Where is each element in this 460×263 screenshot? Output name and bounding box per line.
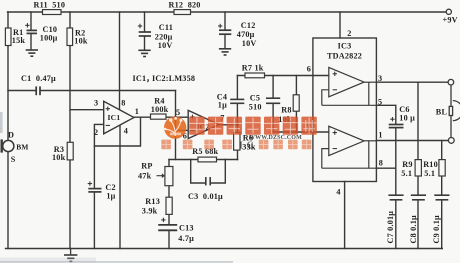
scan artifact: bottom edge gray line — [0, 261, 233, 263]
resistor R13 — [166, 197, 172, 214]
watermark logo (dzsc orange circle) — [164, 116, 187, 138]
terminal node: +9V — [446, 9, 451, 14]
svg-text:R11 510: R11 510 — [34, 1, 66, 10]
svg-text:R12 820: R12 820 — [169, 1, 201, 10]
capacitor C2 plates — [88, 189, 101, 192]
capacitor C8 plates — [411, 195, 426, 200]
wire: IC1 pin8 V+ stub from rail — [119, 12, 121, 110]
microphone BM (electret) — [2, 139, 14, 152]
wire: IC1 output to pin5 junction — [134, 116, 176, 118]
svg-text:C11: C11 — [159, 23, 173, 32]
wire: mic source to bottom ground rail — [7, 152, 9, 249]
wire: C11 to ground symbol — [144, 36, 146, 50]
wire: C3 parallel loop — [191, 160, 205, 184]
junction dot (R4/pin5 node) — [174, 116, 177, 119]
svg-text:BL: BL — [436, 108, 448, 117]
svg-text:5.1: 5.1 — [424, 169, 435, 178]
wire: IC3 pin3 output to speaker terminal — [376, 81, 448, 83]
svg-text:R9: R9 — [402, 160, 412, 169]
wire: C1 signal line from mic to IC2 input node — [8, 90, 36, 92]
wire: C4/R6 vertical column — [236, 76, 238, 99]
capacitor C9 plates — [434, 195, 449, 200]
svg-text:100k: 100k — [151, 105, 169, 114]
capacitor C12 plates — [219, 30, 231, 34]
svg-text:R7 1k: R7 1k — [242, 64, 264, 73]
wire: RP/R13/C13 column to ground rail — [168, 160, 170, 225]
svg-text:IC2:LM358: IC2:LM358 — [152, 74, 195, 83]
plus C12 — [218, 24, 222, 28]
wire: IC3 pin8 stub — [376, 167, 395, 169]
plus C11 — [138, 24, 142, 28]
wire: IC1 pin2 feedback loop — [94, 117, 140, 146]
ground (under C11) — [138, 50, 150, 56]
scan artifact: left edge smudge — [0, 112, 3, 133]
svg-text:C3 0.01μ: C3 0.01μ — [188, 192, 223, 201]
wire: IC2 pin5 stub — [176, 116, 189, 118]
resistor R12 — [174, 10, 191, 15]
wire: IC2 pin6 stub — [176, 129, 189, 131]
svg-text:IC1: IC1 — [133, 74, 147, 83]
wire: IC1 pin3 stub — [70, 109, 104, 111]
svg-text:C8 0.1μ: C8 0.1μ — [409, 215, 418, 243]
IC2 plus — [190, 115, 194, 119]
resistor R9 — [415, 160, 421, 176]
wire: C2 to ground rail — [93, 192, 95, 248]
svg-text:8: 8 — [379, 159, 383, 168]
svg-text:1: 1 — [135, 107, 139, 116]
potentiometer RP wiper arrow — [157, 173, 166, 178]
wire: IC3 pin5 stub to C6 — [376, 105, 395, 124]
ground (bottom rail marker) — [64, 249, 77, 262]
svg-text:D: D — [8, 131, 14, 140]
svg-text:4.7μ: 4.7μ — [178, 234, 194, 243]
resistor R2 — [67, 28, 73, 46]
capacitor C7 plates — [388, 195, 403, 200]
svg-text:C1 0.47μ: C1 0.47μ — [21, 74, 56, 83]
svg-text:4: 4 — [124, 127, 128, 136]
svg-text:10 μ: 10 μ — [399, 114, 415, 123]
capacitor C3 plates — [206, 177, 210, 185]
svg-text:100μ: 100μ — [40, 34, 58, 43]
capacitor C10 plates — [27, 30, 38, 33]
wire: IC2 output to C4/R6 junction — [219, 124, 237, 126]
watermark text: big CJK row (weiku dianzi shichangwang) — [189, 117, 317, 135]
terminal node: speaker bottom — [448, 138, 454, 144]
op-amp U3b (bottom half of TDA2822) — [322, 126, 377, 168]
capacitor C5 plates — [266, 98, 280, 103]
speaker BL — [449, 85, 460, 138]
svg-text:C: C — [247, 140, 254, 151]
svg-text:C7 0.01μ: C7 0.01μ — [386, 211, 395, 244]
svg-text:S: S — [11, 155, 16, 164]
resistor R1 — [5, 28, 11, 46]
plus C10 — [25, 23, 29, 27]
svg-text:3: 3 — [94, 99, 98, 108]
resistor R11 — [43, 10, 62, 15]
wire: R8 branch — [295, 76, 297, 96]
svg-text:R10: R10 — [423, 160, 438, 169]
op-amp IC2 — [188, 110, 219, 138]
U3a minus — [333, 89, 337, 91]
wire: C10 branch from rail — [30, 12, 32, 30]
svg-text:C13: C13 — [179, 224, 194, 233]
svg-text:2: 2 — [94, 128, 98, 137]
U3b minus — [333, 148, 337, 150]
ground (under C12) — [219, 49, 231, 55]
resistor R5 — [198, 157, 217, 162]
svg-text:C5: C5 — [250, 93, 260, 102]
svg-text:6: 6 — [307, 65, 311, 74]
svg-text:5: 5 — [378, 98, 382, 107]
U3a plus — [333, 72, 337, 76]
svg-text:2: 2 — [347, 29, 351, 38]
svg-text:5: 5 — [176, 108, 180, 117]
wire: C2 branch from feedback wire — [93, 146, 95, 188]
ground (under C10) — [26, 50, 38, 56]
wire: IC3 pin1 output to speaker terminal — [376, 140, 448, 142]
capacitor C1 plates — [36, 86, 40, 95]
terminal node: speaker top — [448, 79, 454, 85]
svg-text:5.1: 5.1 — [401, 169, 412, 178]
svg-text:1μ: 1μ — [218, 100, 227, 109]
IC2 minus — [190, 130, 194, 132]
resistor R8 — [293, 95, 299, 111]
wire: C5 branch — [272, 76, 274, 98]
svg-text:4: 4 — [336, 188, 340, 197]
wire: C6 to pin8 junction and C7 — [395, 128, 397, 195]
IC3 box (TDA2822) — [313, 38, 377, 182]
resistor R3 — [67, 142, 73, 160]
wire: IC3 pin4 to ground rail — [344, 182, 346, 249]
op-amp input polarity marks — [106, 72, 337, 149]
svg-text:1μ: 1μ — [106, 191, 115, 200]
wire: C12 to ground symbol — [224, 35, 226, 49]
U3b plus — [333, 130, 337, 134]
resistor R6 — [234, 133, 240, 151]
resistor R7 — [245, 73, 265, 78]
svg-text:10k: 10k — [52, 153, 66, 162]
plus C13 — [161, 218, 165, 222]
wire: R10 zobel column — [441, 141, 443, 160]
wire: C11 branch from rail — [144, 12, 146, 32]
IC1 minus — [106, 124, 110, 126]
potentiometer RP body — [165, 167, 173, 186]
wire: IC3 pin7 input line — [273, 131, 329, 133]
capacitor C4 plates — [230, 99, 244, 103]
wire: IC1 pin4 line down to ground rail — [119, 125, 121, 249]
svg-text:RP: RP — [141, 161, 152, 170]
wire: C12 branch from rail — [224, 12, 226, 30]
junction dot (IC2 output / C4 / R6 node) — [236, 123, 239, 126]
resistor R4 — [151, 114, 167, 119]
svg-text:3: 3 — [378, 74, 382, 83]
capacitor C11 plates — [139, 32, 151, 36]
wire: signal node vertical to R5 network — [175, 91, 177, 160]
svg-text:1: 1 — [378, 131, 382, 140]
svg-text:8: 8 — [121, 99, 125, 108]
svg-text:15k: 15k — [12, 36, 26, 45]
svg-text:BM: BM — [16, 143, 28, 152]
svg-text:510: 510 — [249, 103, 262, 112]
wire: R2/R3 bias divider column — [69, 12, 71, 249]
wire: IC3 pin2 stub from rail — [339, 12, 341, 38]
svg-text:TDA2822: TDA2822 — [327, 52, 362, 61]
plus C2 — [88, 181, 92, 185]
svg-text:10V: 10V — [158, 41, 173, 50]
svg-text:10k: 10k — [74, 37, 88, 46]
capacitor C13 plates — [158, 225, 177, 230]
svg-text:+9V: +9V — [443, 16, 458, 25]
wire: R7 line to IC3 pin6 — [237, 75, 328, 77]
op-amp U3a (top half of TDA2822) — [322, 67, 377, 105]
wire: left column (R1 / mic branch) — [7, 12, 9, 141]
svg-text:IC3: IC3 — [338, 42, 352, 51]
svg-text:10V: 10V — [242, 39, 257, 48]
IC1 plus — [106, 107, 110, 111]
wire: C10 to ground symbol — [30, 33, 32, 49]
wire: R9 zobel column — [417, 82, 419, 159]
op-amp IC1 — [104, 101, 134, 134]
svg-text:R8: R8 — [281, 106, 291, 115]
svg-text:IC1: IC1 — [108, 113, 121, 122]
wire: bottom ground rail — [6, 248, 443, 250]
svg-text:R13: R13 — [145, 197, 160, 206]
resistor R10 — [439, 160, 445, 176]
svg-text:C12: C12 — [241, 21, 256, 30]
wire: top +9V supply rail — [8, 11, 447, 13]
svg-text:3.9k: 3.9k — [142, 207, 158, 216]
plus C6 — [390, 117, 394, 121]
svg-text:I: I — [239, 140, 243, 151]
wire: C7 to ground rail — [395, 200, 397, 248]
watermark text: slogan CJK row — [161, 140, 311, 152]
capacitor C6 plates — [389, 125, 404, 128]
svg-text:47k: 47k — [138, 172, 152, 181]
electrolytic polarity plus signs — [25, 23, 394, 222]
svg-text:C9 0.1μ: C9 0.1μ — [432, 215, 441, 243]
wire: R5 feedback rail — [169, 159, 238, 161]
svg-text:470μ: 470μ — [237, 30, 255, 39]
